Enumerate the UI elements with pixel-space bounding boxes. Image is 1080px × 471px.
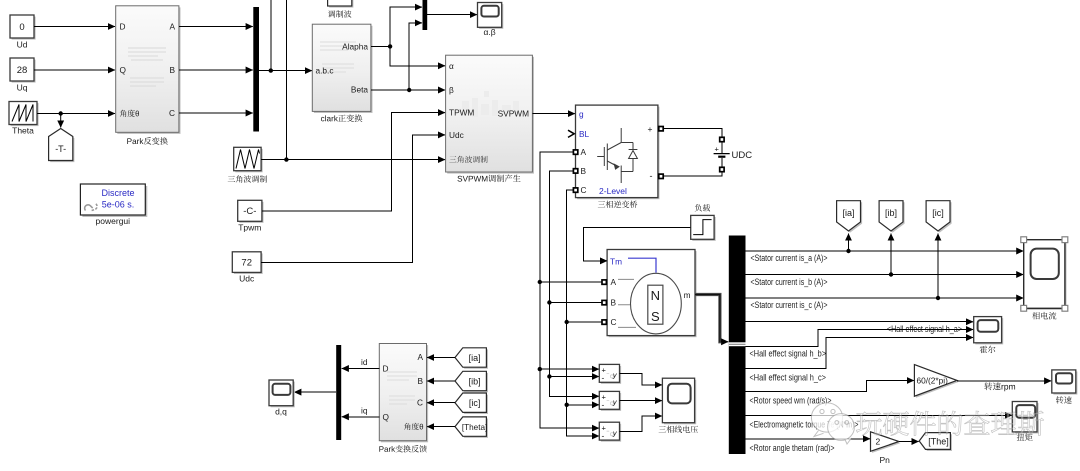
svg-text:Tpwm: Tpwm <box>238 223 261 233</box>
wire up to goto ia <box>848 234 850 252</box>
inverter block 2-Level 三相逆变桥 <box>576 105 660 208</box>
motor block PMSM <box>607 250 697 338</box>
svg-text:-C-: -C- <box>243 206 256 217</box>
svg-text:α: α <box>449 61 454 71</box>
mux1 bar <box>253 7 259 132</box>
junction dot Theta branch <box>59 111 63 115</box>
wire stator current is_a <box>746 250 1024 252</box>
port square motor C <box>602 320 606 324</box>
wire SVPWM output to inverter g <box>532 113 575 115</box>
svg-text:TPWM: TPWM <box>449 108 474 118</box>
svg-text:2: 2 <box>876 436 881 446</box>
svg-text:60/(2*pi): 60/(2*pi) <box>917 376 949 386</box>
svg-text:C: C <box>169 108 175 118</box>
gain 60/(2*pi) <box>914 365 958 398</box>
svg-text:[The]: [The] <box>928 437 949 447</box>
sum block Sum1 <box>599 364 621 384</box>
svg-text:C: C <box>417 398 423 408</box>
goto tag [ia] <box>837 201 863 233</box>
wire id Park feedback to mux3 <box>342 357 380 369</box>
sum block Sum3 <box>599 422 621 441</box>
wire Alapha down to SVPWM alpha <box>390 46 445 65</box>
mux3 bar dq <box>336 345 341 440</box>
wire hall h_b <box>746 330 974 347</box>
svg-text:Ud: Ud <box>17 40 28 50</box>
scope 转速 <box>1052 370 1078 404</box>
port square inverter minus <box>659 174 663 178</box>
wire UDC bottom to inverter minus <box>663 172 722 176</box>
svg-text:-: - <box>602 430 605 440</box>
wire iq Park feedback to mux3 <box>342 405 380 417</box>
bus selector bar <box>729 236 746 455</box>
svg-text:Q: Q <box>120 65 127 75</box>
junction dot C sum2 <box>565 403 569 407</box>
svg-text:[ia]: [ia] <box>842 208 854 218</box>
svg-text:<Hall effect signal h_b>: <Hall effect signal h_b> <box>750 349 827 359</box>
svg-text:Pn: Pn <box>879 455 890 465</box>
svg-text:A: A <box>169 22 175 32</box>
wire phase B stub to sum1 minus <box>549 376 599 378</box>
port square inverter C <box>573 188 577 192</box>
svg-text:-: - <box>650 171 653 181</box>
wire phase A inverter to motor and sums <box>540 152 593 428</box>
svg-text:[ib]: [ib] <box>469 376 481 386</box>
svg-text:g: g <box>579 109 584 119</box>
motor Tm input arrow <box>601 260 608 262</box>
scope 相电流 selected <box>1021 237 1068 320</box>
svg-text:[Theta]: [Theta] <box>462 423 488 432</box>
svg-text:Theta: Theta <box>12 126 34 136</box>
svg-text:β: β <box>449 85 454 95</box>
from tag [Theta] <box>455 417 488 438</box>
source Theta sawtooth <box>9 102 39 136</box>
watermark logo bubbles <box>811 403 854 444</box>
wire phase C stub to motor <box>567 321 602 323</box>
svg-text:[ia]: [ia] <box>469 353 481 363</box>
wire Park A to mux1 <box>179 26 253 28</box>
scope 调制波 (clipped at top) <box>328 0 354 18</box>
subsystem Park变换反馈 <box>379 344 428 453</box>
svg-text:B: B <box>581 166 587 176</box>
port square motor B <box>602 300 606 304</box>
svg-text:C: C <box>581 185 587 195</box>
svg-text:N: N <box>651 288 660 303</box>
junction dot ic <box>936 296 940 300</box>
unconnected chevron BL port <box>568 130 574 137</box>
svg-text:[ic]: [ic] <box>932 208 944 218</box>
svg-text:SVPWM: SVPWM <box>498 108 529 118</box>
svg-text:<Stator current is_a (A)>: <Stator current is_a (A)> <box>751 253 828 263</box>
wire Alapha to junction <box>371 45 390 47</box>
DC source UDC battery <box>714 142 753 167</box>
svg-text:<Hall effect signal h_c>: <Hall effect signal h_c> <box>750 372 827 382</box>
subsystem Park反变换 <box>116 6 181 145</box>
wire from ic to Park feedback <box>427 402 455 404</box>
wire mux1 output to clark a.b.c <box>259 70 312 72</box>
wire Park C to mux1 <box>179 112 253 114</box>
svg-text:d,q: d,q <box>275 407 287 417</box>
port square inverter A <box>573 150 577 154</box>
svg-text:2-Level: 2-Level <box>599 186 627 196</box>
port square inverter plus <box>659 127 663 131</box>
wire up to goto ib <box>890 234 892 275</box>
wire Uq to Park Q <box>34 69 115 71</box>
svg-text:<Rotor angle thetam (rad)>: <Rotor angle thetam (rad)> <box>750 443 835 453</box>
junction dot ib <box>889 272 893 276</box>
wire sum3 to line scope in3 <box>620 416 663 431</box>
wire carrier to SVPWM <box>261 159 445 161</box>
svg-text:powergui: powergui <box>96 216 131 226</box>
junction dot B sum1 <box>547 374 551 378</box>
svg-text:α.β: α.β <box>484 27 496 37</box>
svg-text:Discrete: Discrete <box>101 188 134 198</box>
svg-text:<Rotor speed wm (rad/s)>: <Rotor speed wm (rad/s)> <box>750 396 832 406</box>
from tag [ic] <box>455 393 488 414</box>
svg-text:B: B <box>611 298 617 308</box>
wire Theta branch down to goto -T- <box>60 114 62 128</box>
junction dot ia <box>846 249 850 253</box>
svg-text:Alapha: Alapha <box>342 41 368 51</box>
svg-text:Tm: Tm <box>610 257 622 267</box>
wire mux3 to scope dq <box>294 391 336 393</box>
wire Beta to SVPWM beta <box>371 89 445 91</box>
constant Tpwm -C- <box>238 200 264 232</box>
from tag [ia] <box>455 348 488 369</box>
svg-text:-T-: -T- <box>55 144 66 154</box>
port square inverter B <box>573 169 577 173</box>
wire phase A stub to motor <box>540 281 602 283</box>
wire load to motor Tm <box>584 227 691 261</box>
svg-text:A: A <box>581 147 587 157</box>
wire Udc to SVPWM Udc <box>261 135 445 262</box>
goto tag -T- <box>49 129 75 163</box>
goto tag [ic] <box>926 201 952 233</box>
junction dot C motor <box>565 320 569 324</box>
from tag [ib] <box>455 371 488 392</box>
junction dot B motor <box>547 300 551 304</box>
junction dot A motor <box>538 280 542 284</box>
svg-text:A: A <box>611 277 617 287</box>
svg-text:[ic]: [ic] <box>469 398 481 408</box>
wire sum2 to line scope in2 <box>620 400 663 402</box>
wire from ib to Park feedback <box>427 380 455 382</box>
constant Uq value 28 <box>10 58 36 93</box>
svg-text:Udc: Udc <box>449 130 464 140</box>
scope 扭矩 <box>1012 402 1038 441</box>
svg-text:A: A <box>417 352 423 362</box>
svg-text:0: 0 <box>19 22 24 33</box>
wire rotor speed wm <box>746 381 915 392</box>
svg-text:<Stator current is_c (A)>: <Stator current is_c (A)> <box>751 300 828 310</box>
wire Pn to goto The <box>899 441 919 443</box>
svg-text:28: 28 <box>17 65 28 76</box>
wire sum1 to line scope in1 <box>620 373 663 385</box>
wire Ud to Park D <box>34 26 115 28</box>
constant Ud value 0 <box>10 15 36 50</box>
wire Tpwm to SVPWM TPWM <box>262 113 445 211</box>
wire Alapha up to mux2 input1 <box>390 7 422 46</box>
svg-text:S: S <box>651 309 660 324</box>
svg-text:Uq: Uq <box>17 83 28 93</box>
svg-text:D: D <box>383 364 389 374</box>
gain Pn <box>871 432 901 465</box>
port square motor A <box>602 280 606 284</box>
wire from ia to Park feedback <box>427 357 455 359</box>
svg-text:-: - <box>602 400 605 410</box>
bus wire motor m to demux <box>695 295 728 342</box>
svg-text:C: C <box>611 317 617 327</box>
svg-text:id: id <box>361 357 368 367</box>
wire inverter plus to UDC <box>663 129 722 137</box>
svg-text:iq: iq <box>361 405 368 415</box>
goto tag [The] <box>919 433 952 451</box>
wire up to goto ic <box>937 234 939 299</box>
svg-text:B: B <box>169 65 175 75</box>
junction dot A sum1 <box>538 367 542 371</box>
wire stator current is_b <box>746 274 1024 276</box>
wire electromagnetic torque <box>746 414 1013 416</box>
svg-text:BL: BL <box>579 129 590 139</box>
wire hall h_c <box>746 338 974 369</box>
powergui block Discrete 5e-06 s <box>80 184 147 226</box>
wire phase B inverter to motor and sums <box>549 171 592 396</box>
source 三角波调制 triangle wave <box>228 147 267 182</box>
wire phase C stub to sum2 minus <box>567 404 599 406</box>
svg-text:B: B <box>417 376 423 386</box>
svg-text:5e-06 s.: 5e-06 s. <box>102 200 135 210</box>
junction dot carrier <box>284 157 288 161</box>
svg-text:+: + <box>715 145 720 154</box>
svg-text:+: + <box>648 124 653 134</box>
svg-text:Q: Q <box>383 412 390 422</box>
svg-text:a.b.c: a.b.c <box>316 66 334 76</box>
subsystem clark正变换 <box>312 24 372 122</box>
svg-text:Udc: Udc <box>239 274 255 284</box>
scope α.β <box>478 3 504 38</box>
port square UDC top <box>720 137 724 141</box>
wire phase A stub to sum1 plus <box>540 368 599 370</box>
svg-text:m: m <box>684 290 691 300</box>
svg-text:<Stator current is_b (A)>: <Stator current is_b (A)> <box>751 277 828 287</box>
wire mux2 to scope α.β <box>427 14 477 16</box>
svg-text:UDC: UDC <box>732 150 753 161</box>
wire Beta up to mux2 input2 <box>409 23 422 90</box>
junction dot modulation branch <box>269 68 273 72</box>
wire rotor angle thetam <box>746 438 871 440</box>
watermark text 玩硬件的查理斯 <box>856 411 1043 436</box>
scope 三相线电压 <box>659 378 698 433</box>
junction dot Beta <box>407 88 411 92</box>
wire carrier branch up from sawtooth <box>285 0 287 160</box>
wire from Theta to Park feedback <box>427 426 455 428</box>
signal label 转速rpm <box>984 382 1015 391</box>
svg-text:Beta: Beta <box>351 85 368 95</box>
svg-text:D: D <box>120 22 126 32</box>
wire Theta to Park angle <box>37 113 115 115</box>
svg-text:-: - <box>602 373 605 383</box>
svg-text:[ib]: [ib] <box>885 208 897 218</box>
mux2 bar alpha-beta <box>423 0 428 30</box>
constant Udc 72 <box>232 252 262 284</box>
wire phase B stub to motor <box>549 302 602 304</box>
wire branch up to scope 调制波 <box>270 0 272 71</box>
svg-text:72: 72 <box>241 257 252 268</box>
step source 负载 <box>691 204 716 241</box>
sum block Sum2 <box>599 391 621 411</box>
scope d,q <box>269 380 295 417</box>
subsystem SVPWM调制产生 <box>446 55 534 182</box>
wire hall h_a <box>746 320 974 322</box>
goto tag [ib] <box>879 201 905 233</box>
wire stator current is_c <box>746 297 1024 299</box>
scope 霍尔 <box>974 317 1004 354</box>
port square UDC bottom <box>720 167 724 171</box>
wire phase C inverter to motor and sums <box>567 190 593 436</box>
wire Park B to mux1 <box>179 69 253 71</box>
wire gain to scope 转速 <box>957 380 1051 382</box>
junction dot Alapha <box>388 44 392 48</box>
